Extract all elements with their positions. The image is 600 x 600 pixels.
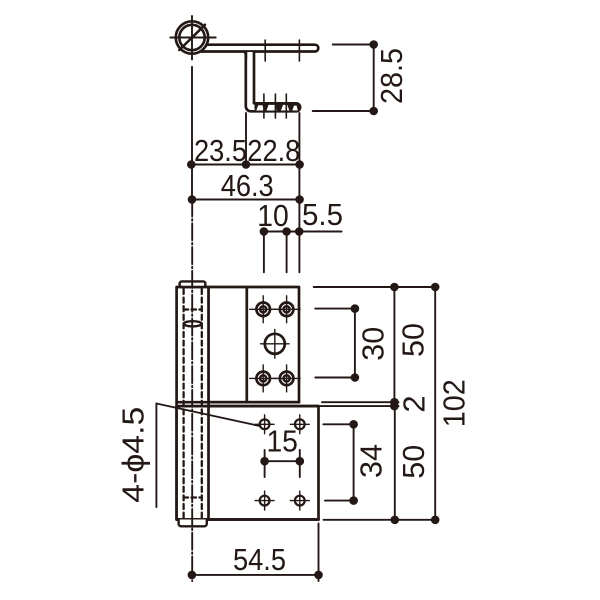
dim 50 top dot A (390, 283, 399, 292)
hole center tick on upper strip (left) (264, 40, 266, 61)
dim 15 stub left (264, 450, 266, 477)
hole L1 (260, 419, 270, 429)
hole center tick on upper strip (right) (298, 40, 300, 61)
dim 54.5 dot left (188, 571, 197, 580)
pin diagonal (179, 25, 205, 50)
svg-text:102: 102 (437, 379, 472, 427)
hole U4 crosshair (273, 365, 300, 392)
dim 50 bottom dot B (391, 516, 400, 525)
svg-text:2: 2 (397, 395, 432, 412)
ext line lower plate top (319, 405, 399, 407)
svg-text:30: 30 (356, 327, 391, 361)
circle crosshair horizontal (170, 37, 215, 39)
dim dot left (187, 160, 196, 169)
svg-text:15: 15 (266, 424, 298, 459)
hole U1 crosshair (250, 296, 277, 323)
hole center tick on lower strip (middle) (274, 94, 276, 118)
dim 10/5.5 dimension line (264, 231, 342, 233)
svg-text:5.5: 5.5 (302, 197, 343, 232)
circle crosshair vertical (191, 16, 193, 60)
countersink white wedge 4 (292, 106, 298, 111)
dim 54.5 dot right (314, 571, 323, 580)
bend fillet at step top (242, 51, 248, 59)
dim 30 dot top (351, 304, 360, 313)
hole U2 outer (280, 303, 294, 317)
dim 15 dot right (296, 457, 305, 466)
upper mounting plate (208, 287, 299, 402)
center line through barrel (dash-dot) (191, 200, 193, 582)
extension line from barrel center (191, 67, 193, 200)
dim 50 top dot B (390, 398, 399, 407)
dim 28.5 dot bottom (369, 107, 378, 116)
dim 34 dot top (349, 420, 358, 429)
lower mounting plate (177, 406, 319, 519)
hole L3 (260, 496, 270, 506)
hole U2 crosshair (273, 296, 300, 323)
dim 34 dot bottom (349, 496, 358, 505)
hole L4 crosshair (290, 491, 309, 510)
hole L4 (295, 496, 305, 506)
dim 28.5 dimension line (373, 45, 375, 112)
dim dot middle (242, 160, 251, 169)
ext line upper plate bottom (322, 401, 399, 403)
plate edge crossing barrel: upper plate bottom (177, 401, 299, 404)
pin end hidden line top (184, 308, 202, 310)
dim 54.5 right extension line (318, 524, 320, 582)
hole U3 crosshair (250, 365, 277, 392)
hole L2 crosshair (290, 415, 309, 434)
barrel body (177, 287, 209, 520)
pin groove lens (184, 321, 202, 326)
countersink white wedge 3 (281, 105, 289, 111)
stub down from 10-dot (263, 232, 265, 273)
center hole crosshair (261, 330, 290, 359)
dim dot A (260, 227, 269, 236)
svg-text:22.8: 22.8 (247, 133, 300, 168)
svg-text:28.5: 28.5 (374, 48, 409, 104)
hole U2 inner (284, 306, 290, 312)
bend line on upper plate (245, 287, 248, 402)
hole L1 crosshair (255, 415, 274, 434)
dim 54.5 dimension line (192, 574, 319, 576)
dim dot B (282, 227, 291, 236)
hole U1 outer (256, 303, 270, 317)
hole U4 inner (284, 375, 290, 381)
extension line from flap end (298, 113, 300, 272)
barrel bore hidden line left (182, 289, 184, 518)
countersink white wedge 2 (267, 105, 277, 111)
hole U1 inner (260, 306, 266, 312)
svg-text:50: 50 (396, 445, 431, 479)
hole center tick on lower strip (left) (263, 94, 265, 118)
pin head cap (180, 281, 206, 287)
dim 15 dot left (260, 457, 269, 466)
dim 46.3 dot left (188, 195, 197, 204)
dim 2 dot (390, 402, 399, 411)
leader reference line (155, 404, 157, 508)
hole L2 (295, 419, 305, 429)
hole U4 outer (280, 372, 294, 386)
dim 102 dot bottom (431, 516, 440, 525)
ext line hole row top (315, 308, 357, 310)
dim 46.3 dimension line (192, 199, 302, 201)
barrel circle outer (176, 21, 208, 53)
svg-text:50: 50 (395, 323, 430, 357)
dim 30 dot bottom (351, 373, 360, 382)
svg-text:34: 34 (354, 444, 389, 478)
stub down from middle dot (286, 232, 288, 273)
pin end hidden line bottom (184, 496, 202, 498)
dim dot C (295, 227, 304, 236)
barrel circle inner (179, 25, 204, 50)
ext line hole row bottom (315, 377, 357, 379)
dim 102 line (434, 287, 436, 520)
barrel bore hidden line right (201, 289, 203, 518)
dim 30 line (354, 309, 356, 378)
dim 34 line (353, 424, 355, 500)
dim dot right (295, 160, 304, 169)
ext line lower hole row bottom (325, 500, 357, 502)
bottom extension line (plate bottom) (324, 519, 438, 521)
top extension line (plate top) (314, 286, 438, 288)
hole U3 outer (256, 372, 270, 386)
svg-text:23.5: 23.5 (194, 133, 247, 168)
dim 102 dot top (431, 283, 440, 292)
barrel bottom cap (179, 520, 207, 527)
countersink section band inside lower strip (255, 103, 300, 111)
extension line from step bend (245, 113, 247, 165)
offset flap: vertical step and lower strip (edge view) (246, 52, 300, 111)
countersink white wedge 1 (256, 105, 264, 110)
svg-text:10: 10 (257, 198, 289, 233)
dim 2 line (393, 402, 395, 406)
dim 50 top line (393, 287, 395, 402)
dim 15 stub right (299, 450, 301, 477)
dim 28.5 bottom extension line (313, 110, 376, 112)
leader diagonal (156, 404, 259, 427)
dim 50 bottom line (394, 406, 396, 520)
dim 28.5 dot top (369, 40, 378, 49)
hole U3 inner (260, 375, 266, 381)
ext line lower hole row top (323, 423, 357, 425)
dim 23.5/22.8 dimension line (191, 164, 299, 166)
dim 46.3 dot right (295, 195, 304, 204)
dim 28.5 top extension line (333, 44, 376, 46)
center hole (265, 334, 285, 354)
upper flap strip (edge view, attached to barrel) (196, 45, 318, 52)
hole L3 crosshair (255, 491, 274, 510)
plate edge crossing barrel: lower plate bottom (177, 518, 319, 521)
plate edge crossing barrel: lower plate top (177, 405, 319, 408)
dim 15 dimension line (265, 460, 300, 462)
svg-text:4-ϕ4.5: 4-ϕ4.5 (116, 407, 151, 503)
hole center tick on lower strip (right) (285, 94, 287, 118)
svg-text:54.5: 54.5 (233, 542, 286, 577)
